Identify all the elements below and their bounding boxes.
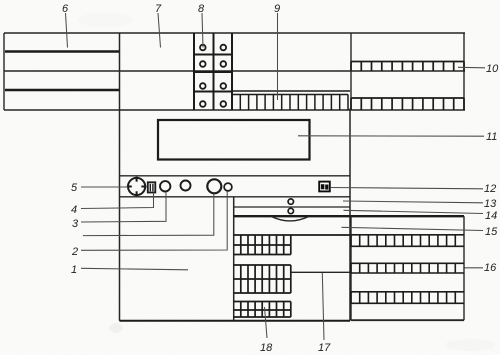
svg-text:9: 9 [274, 3, 280, 15]
leader (unlabeled) [83, 194, 214, 236]
svg-text:13: 13 [484, 198, 497, 210]
knob band lines [120, 176, 351, 197]
strip 16 row C [351, 292, 464, 304]
sub-panel divider vertical [233, 197, 235, 321]
grid 18 verticals band C [241, 302, 291, 318]
leader 13 [343, 201, 483, 203]
knob (unlabeled small) [181, 181, 191, 191]
right lower section border [351, 216, 464, 320]
leader 10 [458, 66, 485, 69]
leader 6 [66, 13, 68, 48]
leader 18 [265, 307, 268, 338]
leader 7 [158, 13, 161, 48]
leader 1 [81, 268, 188, 270]
knob 2 [224, 183, 232, 191]
svg-text:4: 4 [71, 204, 77, 216]
top band outline [4, 33, 465, 110]
svg-text:7: 7 [155, 3, 162, 15]
switch 4 [148, 182, 156, 192]
svg-text:3: 3 [72, 218, 79, 230]
svg-text:2: 2 [71, 246, 78, 258]
divider right of grid 18 [291, 271, 350, 273]
leader 11 [298, 135, 484, 137]
right upper section border [351, 33, 464, 110]
strip 16 row B [351, 263, 464, 273]
svg-text:5: 5 [71, 182, 78, 194]
knob 3 [160, 181, 170, 191]
middle panel right edge [349, 109, 351, 321]
screw 13 [288, 199, 293, 204]
button grid 8 circles [200, 45, 226, 107]
sub-panel line [234, 206, 350, 208]
screw 14 [288, 208, 293, 213]
grid 18 horizontals [234, 235, 350, 317]
button grid 8 frame [194, 33, 232, 110]
leader 16 [465, 267, 484, 269]
svg-text:11: 11 [486, 131, 497, 143]
scale strip 10 [351, 62, 464, 72]
svg-text:17: 17 [318, 342, 331, 354]
leader 5 [81, 186, 128, 188]
knob 5 [127, 177, 147, 197]
leader 12 [330, 188, 483, 189]
leader 8 [202, 13, 203, 48]
svg-text:16: 16 [484, 262, 497, 274]
middle panel bottom edge [120, 320, 351, 322]
grid 18 verticals band B [241, 265, 291, 293]
knob (unlabeled large) [207, 179, 221, 193]
thick divider / right section top [234, 215, 464, 217]
left edge of section 7 / middle panel [119, 33, 121, 321]
scan smudges [77, 13, 495, 351]
svg-text:8: 8 [198, 3, 205, 15]
leader 2 [81, 192, 227, 251]
svg-text:12: 12 [484, 183, 496, 195]
strip 16 row A [351, 235, 464, 247]
arc 15 [271, 216, 309, 221]
scale strip 9 [232, 91, 350, 110]
leader 4 [81, 193, 154, 209]
svg-text:6: 6 [62, 3, 69, 15]
svg-text:1: 1 [71, 264, 77, 276]
panel 6 row dividers (thick) [5, 52, 119, 91]
svg-text:10: 10 [486, 63, 499, 75]
indicator 12 [319, 182, 330, 192]
grid 18 verticals band A [241, 236, 291, 255]
display window 11 [158, 120, 310, 160]
leader 9 [277, 13, 279, 100]
svg-text:18: 18 [260, 342, 273, 354]
svg-text:15: 15 [485, 226, 498, 238]
svg-text:14: 14 [485, 210, 497, 222]
leader 17 [322, 273, 324, 340]
leader 3 [81, 192, 166, 222]
scale strip right-bottom of top band [351, 98, 464, 110]
leader 14 [344, 210, 484, 213]
leader 15 [342, 227, 484, 230]
